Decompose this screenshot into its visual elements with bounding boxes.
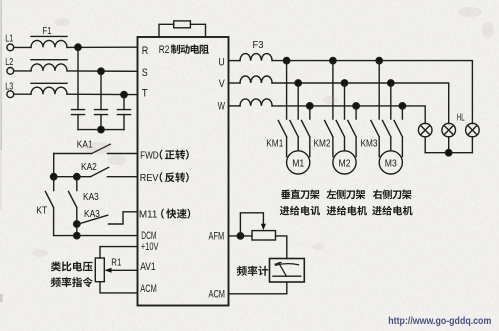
capacitor bottom bus wire — [78, 129, 124, 131]
capacitor C3 — [118, 110, 131, 115]
svg-text:S: S — [142, 67, 148, 79]
svg-text:R2: R2 — [159, 44, 170, 56]
svg-text:M2: M2 — [339, 157, 351, 169]
svg-text:F1: F1 — [43, 25, 52, 37]
lamp HL2 — [442, 123, 456, 137]
motor label M1 line2 — [280, 206, 320, 216]
reactor coil W (F3) — [229, 105, 241, 107]
wire W bus — [272, 106, 425, 124]
motor M1 — [287, 151, 310, 174]
svg-text:AFM: AFM — [209, 230, 225, 242]
capacitor C2 — [95, 110, 108, 115]
svg-text:T: T — [142, 88, 148, 100]
meter bottom line — [273, 275, 301, 277]
wire lamp 2 bottom — [448, 137, 450, 153]
svg-text:R1: R1 — [111, 256, 121, 268]
node KA3 branch junction — [74, 174, 80, 180]
reactor coil phase L3 — [31, 87, 67, 94]
wire L3 coil to inverter T — [67, 93, 138, 95]
contactor KM3 pole 3 — [394, 106, 402, 157]
svg-text:http://www.go-gddq.com: http://www.go-gddq.com — [388, 316, 491, 327]
contactor KM2 pole 3 — [348, 106, 356, 157]
wire L3 to reactor — [14, 93, 31, 95]
scan artifacts — [0, 0, 3, 302]
wire lamp 1 bottom — [424, 137, 426, 153]
meter scale line — [276, 264, 299, 266]
potentiometer R3 wiper arrow — [261, 224, 266, 231]
node KM3 pole 1 tap — [376, 57, 382, 63]
reactor coil U (F3) — [229, 60, 241, 62]
svg-text:L1: L1 — [5, 34, 13, 45]
fuse F1 line phase L1 — [31, 35, 67, 37]
terminal L3 — [7, 91, 14, 98]
svg-text:KA2: KA2 — [81, 162, 97, 173]
svg-text:REV: REV — [140, 172, 159, 184]
contactor KM3 pole 2 — [383, 83, 391, 151]
node KM2 pole 3 tap — [353, 103, 359, 109]
node L1-C1 junction — [75, 44, 81, 50]
svg-text:+10V: +10V — [141, 241, 159, 253]
reactor coil V (F3) — [229, 82, 241, 84]
svg-text:KM1: KM1 — [266, 139, 283, 150]
lamp HL1 — [418, 123, 432, 137]
node AFM junction — [237, 233, 243, 239]
svg-text:ACM: ACM — [209, 288, 226, 300]
svg-text:ACM: ACM — [140, 283, 157, 295]
svg-text:KA3: KA3 — [83, 192, 99, 203]
wire braking resistor right — [190, 24, 205, 37]
node L3-C3 junction — [121, 91, 127, 97]
node KM3 pole 2 tap — [388, 80, 394, 86]
svg-text:FWD: FWD — [140, 149, 159, 161]
fuse F1 line phase L2 — [31, 59, 67, 61]
potentiometer R1 body — [95, 258, 104, 282]
node DCM junction — [74, 232, 80, 238]
svg-text:F3: F3 — [253, 40, 264, 51]
wire common rail KA1-KA2 — [53, 154, 55, 177]
node capacitor bus junction — [98, 126, 104, 132]
svg-text:V: V — [219, 78, 226, 90]
terminal L2 — [7, 68, 14, 75]
node KA2 rail junction — [51, 174, 57, 180]
svg-text:AV1: AV1 — [140, 261, 155, 273]
inverter U1 box — [138, 37, 229, 306]
svg-text:KT: KT — [36, 205, 47, 216]
motor label M2 line1 — [326, 190, 365, 200]
capacitor C3 lead — [123, 95, 125, 110]
label analog voltage — [51, 261, 93, 271]
contactor KM1 pole 2 — [290, 83, 298, 151]
motor M2 — [333, 151, 356, 174]
wire lamp 3 bottom — [471, 137, 473, 153]
contactor KM3 pole 1 — [371, 61, 379, 157]
meter needle — [275, 262, 286, 276]
svg-text:L3: L3 — [5, 81, 13, 92]
wire DCM — [77, 235, 138, 237]
svg-text:KM3: KM3 — [361, 139, 378, 150]
wire lamp bottom bus — [425, 152, 472, 154]
resistor R2 (braking) — [174, 21, 191, 28]
svg-text:R: R — [142, 45, 149, 57]
motor label M1 line1 — [281, 189, 319, 199]
capacitor C2 lead — [100, 71, 102, 109]
label 频率计 — [237, 266, 269, 276]
node KM1 pole 2 tap — [295, 80, 301, 86]
contactor KM1 pole 3 — [302, 106, 310, 157]
frequency meter box — [270, 259, 305, 283]
capacitor C1 — [72, 110, 85, 115]
svg-text:W: W — [218, 100, 226, 112]
motor label M3 line1 — [373, 190, 412, 200]
wire L1 to reactor — [14, 46, 31, 48]
svg-text:L2: L2 — [5, 57, 13, 68]
label frequency command — [51, 277, 93, 287]
wire L2 coil to inverter S — [67, 70, 138, 72]
svg-text:KM2: KM2 — [314, 139, 331, 150]
contactor KM1 pole 1 — [278, 61, 286, 157]
node KM3 pole 3 tap — [399, 103, 405, 109]
svg-text:M3: M3 — [385, 157, 397, 169]
wire AV1 wiper — [110, 269, 138, 271]
motor M3 — [379, 151, 402, 174]
node KM2 pole 2 tap — [341, 80, 347, 86]
wire AFM — [229, 235, 253, 237]
node lamp bus junction — [446, 150, 452, 156]
wire +10V to R1 top — [100, 247, 138, 258]
wire U bus — [272, 61, 472, 124]
svg-text:M1: M1 — [292, 157, 304, 169]
motor label M3 line2 — [372, 206, 412, 216]
reactor coil phase L1 — [31, 40, 67, 47]
reactor coil phase L2 — [31, 64, 67, 71]
wire L1 coil to inverter R — [67, 46, 138, 48]
svg-text:M11: M11 — [139, 208, 158, 220]
fuse F1 line phase L3 — [31, 82, 67, 84]
wire braking resistor left — [159, 24, 174, 37]
node KM1 pole 1 tap — [283, 57, 289, 63]
capacitor C1 lead — [77, 47, 79, 109]
motor label M2 line2 — [327, 206, 367, 216]
wire ACM to meter — [229, 282, 287, 294]
node KM1 pole 3 tap — [307, 103, 313, 109]
wire AFM wiper feed — [240, 213, 263, 236]
potentiometer R3 body — [252, 231, 276, 240]
terminal L1 — [7, 44, 14, 51]
lamp HL3 — [466, 123, 480, 137]
svg-text:U: U — [219, 56, 225, 68]
node KM2 pole 1 tap — [330, 57, 336, 63]
wire V bus — [272, 83, 449, 124]
svg-text:HL: HL — [457, 113, 465, 124]
R1 wiper arrow — [105, 268, 112, 273]
contactor KM2 pole 1 — [325, 61, 333, 157]
node L2-C2 junction — [98, 68, 104, 74]
contactor KM2 pole 2 — [336, 83, 344, 151]
wire R1 bottom to ACM — [100, 282, 138, 293]
node KA3 wire junction — [74, 221, 80, 227]
wire L2 to reactor — [14, 70, 31, 72]
wire pot to meter — [276, 236, 287, 259]
